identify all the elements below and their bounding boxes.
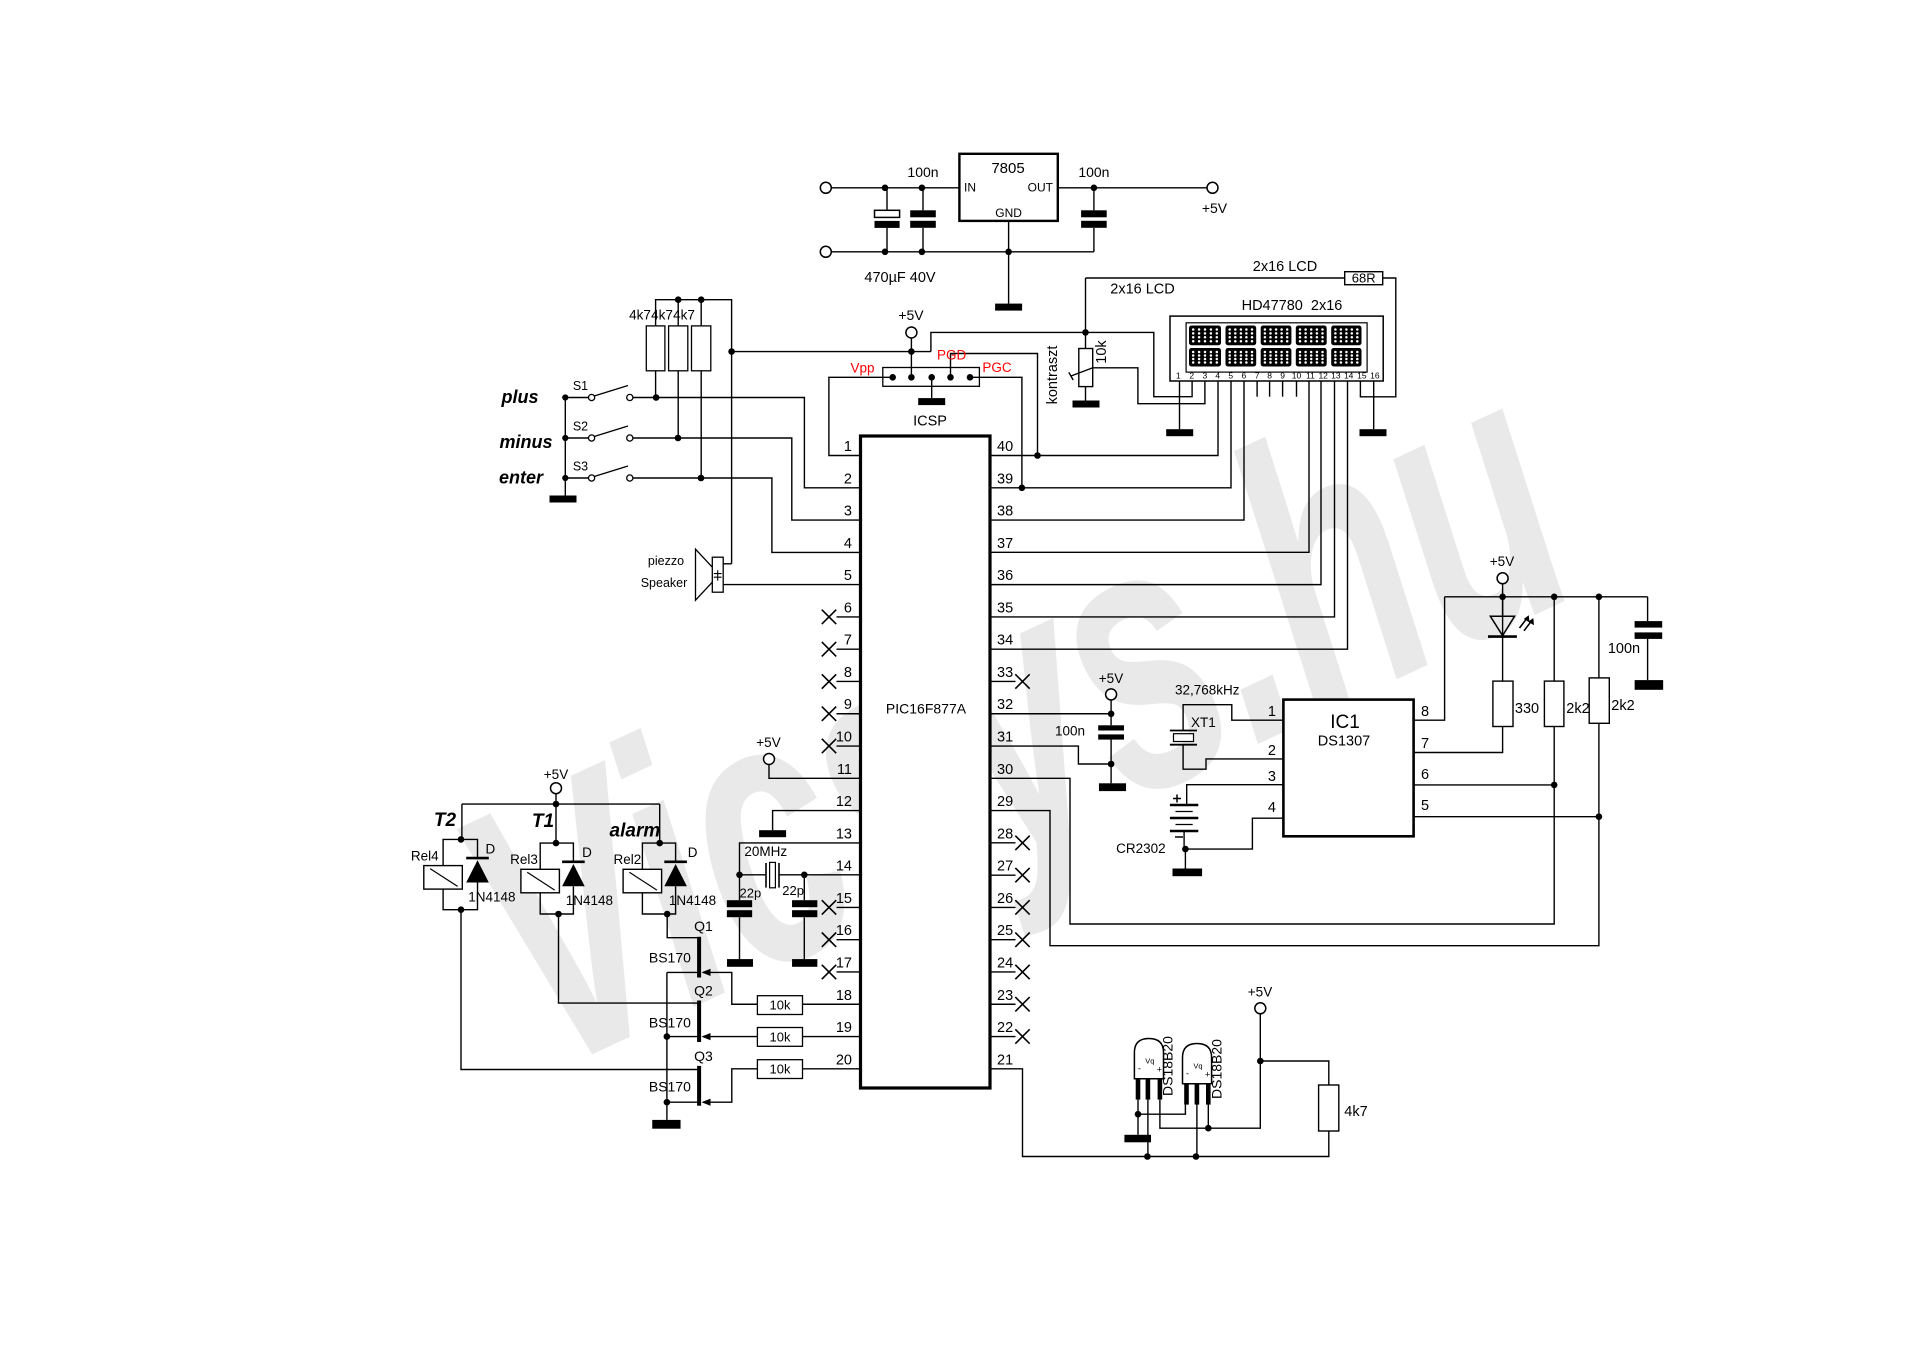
wire +5V rail mid xyxy=(732,351,931,353)
wire 100n rtc bottom lead xyxy=(1110,740,1112,784)
node switch S2 left contact xyxy=(562,435,568,441)
LCD character block r1c1 xyxy=(1189,326,1221,346)
node junction 2k2a rail xyxy=(1551,594,1558,601)
wire Rel2 top right xyxy=(660,843,676,862)
ground sensor ground xyxy=(1124,1135,1151,1143)
svg-text:3: 3 xyxy=(1203,371,1208,381)
wire 100n-out lead1 xyxy=(1093,188,1095,211)
node Rel3 top node xyxy=(553,840,560,847)
wire S1 to PIC xyxy=(633,398,861,488)
svg-text:Speaker: Speaker xyxy=(641,576,688,590)
wire 100n-in leads xyxy=(922,188,924,211)
svg-text:5: 5 xyxy=(844,568,852,584)
svg-text:2: 2 xyxy=(1189,371,1194,381)
node junction DQ2 xyxy=(1193,1153,1200,1160)
ground battery ground xyxy=(1173,869,1203,877)
svg-text:36: 36 xyxy=(997,568,1013,584)
svg-text:9: 9 xyxy=(1280,371,1285,381)
crystal Q-20MHz xyxy=(765,863,767,888)
resistor 330 xyxy=(1493,681,1513,726)
wire Rel3 diode bottom xyxy=(559,886,574,914)
svg-text:10k: 10k xyxy=(770,998,791,1013)
svg-text:1N4148: 1N4148 xyxy=(468,889,515,904)
node junction XTAL left xyxy=(736,872,743,879)
resistor 10k pin19 xyxy=(757,1028,802,1047)
svg-text:DS18B20: DS18B20 xyxy=(1209,1039,1225,1099)
node junction XTAL right xyxy=(801,872,808,879)
wire sensor gnd link xyxy=(1138,1104,1185,1114)
svg-text:10k: 10k xyxy=(770,1062,791,1077)
svg-text:+5V: +5V xyxy=(544,767,568,782)
IC1 DS1307 xyxy=(1283,700,1413,837)
U2 leg xyxy=(1146,1079,1151,1100)
no-connect X pin10 xyxy=(822,739,836,753)
svg-text:Rel3: Rel3 xyxy=(510,852,538,867)
transistor Q2 gate arrow xyxy=(702,1033,711,1040)
wire pin19 to 10k xyxy=(803,1036,861,1038)
transistor Q1 BS170 channel xyxy=(697,937,701,978)
node junction S3 pullup xyxy=(698,475,705,482)
wire R2 top stub xyxy=(677,300,679,326)
ground LCD pin1 ground xyxy=(1166,429,1193,436)
svg-text:7805: 7805 xyxy=(991,160,1024,177)
wire U3 DQ leg xyxy=(1196,1104,1198,1156)
node junction battery gnd xyxy=(1182,846,1189,853)
svg-text:26: 26 xyxy=(997,891,1013,907)
svg-text:3: 3 xyxy=(844,504,852,520)
svg-text:OUT: OUT xyxy=(1028,181,1054,195)
wire 100n-in lead2 xyxy=(922,228,924,252)
svg-text:piezzo: piezzo xyxy=(648,554,684,568)
wire ICSP gnd lead xyxy=(931,377,933,398)
svg-text:+5V: +5V xyxy=(898,307,924,323)
wire pin24 stub xyxy=(990,971,1016,973)
node junction S1 pullup xyxy=(653,394,660,401)
resistor R-S1 4k7 xyxy=(646,326,665,371)
node ICSP pin 2 +5V xyxy=(908,374,915,381)
LCD character block r2c5 xyxy=(1331,348,1361,367)
svg-text:IN: IN xyxy=(964,181,976,195)
wire Rel3 coil bottom xyxy=(540,893,558,914)
svg-text:15: 15 xyxy=(836,891,852,907)
wire relay rail left drop xyxy=(461,804,463,839)
wire 7805 out rail xyxy=(1058,187,1207,189)
wire pin21 data xyxy=(990,1069,1329,1157)
svg-text:330: 330 xyxy=(1515,701,1539,717)
wire pot wiper to LCD pin3 xyxy=(1094,368,1205,404)
ground 22p-1 ground xyxy=(727,959,753,967)
node junction pin32 +5V xyxy=(1108,711,1115,718)
wire Rel4 to Q3 drain xyxy=(461,910,697,1070)
svg-text:T1: T1 xyxy=(532,811,554,832)
no-connect X pin8 xyxy=(822,674,836,688)
wire 22p-1 bottom lead xyxy=(739,917,741,959)
transistor Q3 gate arrow xyxy=(702,1099,711,1106)
node junction elec-cap bottom xyxy=(882,249,889,256)
node Rel3 bottom node xyxy=(555,911,562,918)
capacitor C-elec 470uF top plate xyxy=(875,210,900,217)
svg-text:DS18B20: DS18B20 xyxy=(1160,1036,1176,1096)
wire 100n right top xyxy=(1647,597,1649,621)
wire IC1 pin6 SCL xyxy=(1414,784,1555,786)
node junction SCL xyxy=(1551,782,1558,789)
LCD character block r2c3 xyxy=(1261,348,1292,367)
terminal sensor +5V terminal xyxy=(1255,1003,1266,1014)
LCD character block r1c2 xyxy=(1226,326,1257,346)
svg-text:16: 16 xyxy=(1370,371,1380,381)
wire pin11 +5V xyxy=(769,764,861,778)
node junction SDA xyxy=(1596,813,1603,820)
piezzo speaker xyxy=(712,557,723,592)
svg-text:6: 6 xyxy=(1421,767,1429,783)
wire +5V to 4k7 xyxy=(1260,1061,1329,1085)
svg-text:13: 13 xyxy=(1331,371,1341,381)
svg-text:Vq: Vq xyxy=(1193,1062,1202,1071)
wire relay +5V rail xyxy=(462,803,660,805)
svg-text:19: 19 xyxy=(836,1020,852,1036)
svg-text:32: 32 xyxy=(997,697,1013,713)
wire crystal left link xyxy=(740,874,767,876)
svg-text:2k2: 2k2 xyxy=(1566,701,1589,717)
resistor R-S2 4k7 xyxy=(669,326,688,371)
svg-text:D: D xyxy=(688,845,698,860)
switch S1 contacts xyxy=(589,394,595,400)
node junction PGC pin39 xyxy=(1019,485,1026,492)
wire U2 VDD leg xyxy=(1160,1100,1208,1129)
wire PGC net xyxy=(970,377,1022,488)
wire pin13 to crystal xyxy=(740,843,861,875)
no-connect X pin17 xyxy=(822,965,836,979)
wire pin37 to LCD xyxy=(990,381,1309,552)
LCD character block r2c2 xyxy=(1226,348,1257,367)
wire Rel3 to Q2 drain xyxy=(559,914,698,1003)
svg-text:D: D xyxy=(582,845,592,860)
wire 100n right bottom xyxy=(1647,639,1649,680)
U2 leg xyxy=(1136,1079,1141,1100)
resistor 10k pin18 xyxy=(757,996,802,1015)
wire IC1 pin8 +5V xyxy=(1414,597,1445,720)
node Rel4 top node xyxy=(458,836,465,843)
svg-text:Q2: Q2 xyxy=(694,983,713,999)
svg-text:+5V: +5V xyxy=(1202,200,1228,216)
node switch S3 left contact xyxy=(562,475,568,481)
wire 10k-19 to Q2 gate xyxy=(703,1036,757,1038)
svg-text:Vq: Vq xyxy=(1145,1057,1154,1066)
node junction sensor gnd xyxy=(1135,1111,1142,1118)
no-connect X pin24 xyxy=(1015,965,1029,979)
svg-text:-: - xyxy=(1186,1069,1189,1079)
svg-text:7: 7 xyxy=(1255,371,1260,381)
no-connect X pin25 xyxy=(1015,933,1029,947)
svg-text:HD47780 2x16: HD47780 2x16 xyxy=(1242,298,1343,314)
capacitor C 100n rtc xyxy=(1098,725,1124,730)
svg-text:2: 2 xyxy=(844,471,852,487)
U3 leg xyxy=(1184,1084,1189,1105)
node junction VDD sensors xyxy=(1205,1125,1212,1132)
svg-text:20MHz: 20MHz xyxy=(744,844,787,859)
svg-text:22p: 22p xyxy=(740,886,762,901)
node junction 7805 gnd xyxy=(1005,249,1012,256)
node junction Q3 source xyxy=(664,1099,671,1106)
wire Q2 source xyxy=(667,1036,697,1038)
svg-text:28: 28 xyxy=(997,826,1013,842)
wire IC1 pin3 to battery xyxy=(1187,785,1284,805)
wire pullup top rail xyxy=(656,300,732,564)
ground 7805 ground xyxy=(995,304,1022,311)
wire R3 top stub xyxy=(700,300,702,326)
wire 10k-20 to Q3 gate xyxy=(703,1069,757,1102)
svg-text:5: 5 xyxy=(1228,371,1233,381)
svg-text:37: 37 xyxy=(997,536,1013,552)
svg-text:IC1: IC1 xyxy=(1330,712,1360,733)
node junction 2k2b rail xyxy=(1596,594,1603,601)
terminal ICSP +5V xyxy=(906,327,917,338)
wire battery minus lead xyxy=(1183,831,1185,849)
relay coil Rel4 xyxy=(424,866,463,890)
svg-text:16: 16 xyxy=(836,923,852,939)
terminal pin11 +5V terminal xyxy=(764,754,775,765)
wire 2k2a top xyxy=(1553,597,1555,681)
wire sensor gnd drop xyxy=(1137,1114,1139,1135)
wire 22p-2 bottom lead xyxy=(803,917,805,959)
wire pin28 stub xyxy=(990,842,1016,844)
svg-text:-: - xyxy=(1138,1064,1141,1074)
svg-text:3: 3 xyxy=(1268,769,1276,785)
svg-text:7: 7 xyxy=(844,633,852,649)
wire 2k2b top xyxy=(1598,597,1600,678)
svg-text:5: 5 xyxy=(1421,798,1429,814)
wire pin22 stub xyxy=(990,1036,1016,1038)
svg-text:100n: 100n xyxy=(1055,724,1085,739)
ground pot ground xyxy=(1073,401,1100,408)
svg-text:11: 11 xyxy=(837,762,852,778)
wire LCD pin7 stub xyxy=(1256,381,1258,397)
node Rel2 top node xyxy=(656,840,663,847)
svg-text:100n: 100n xyxy=(907,164,938,180)
wire LED anode through xyxy=(1502,597,1504,637)
ICSP header xyxy=(883,368,980,387)
wire LCD pin2 +5V path xyxy=(1086,332,1193,396)
svg-text:S1: S1 xyxy=(573,379,588,393)
svg-text:8: 8 xyxy=(844,665,852,681)
node junction R3 top xyxy=(698,296,705,303)
svg-text:4k7: 4k7 xyxy=(651,308,673,323)
svg-text:1: 1 xyxy=(1176,371,1181,381)
svg-text:13: 13 xyxy=(836,826,852,842)
node junction DQ1 xyxy=(1144,1153,1151,1160)
wire 100n-out lead2 xyxy=(1093,228,1095,252)
temperature sensor U2 DS18B20 xyxy=(1134,1039,1163,1079)
wire pin6 stub xyxy=(837,616,861,618)
svg-text:6: 6 xyxy=(1242,371,1247,381)
wire +5V to LCD top rail xyxy=(1086,277,1345,279)
transistor Q1 gate arrow xyxy=(702,969,711,976)
ground transistor ground xyxy=(652,1120,680,1129)
ground 22p-2 ground xyxy=(792,959,817,967)
svg-text:GND: GND xyxy=(995,206,1022,220)
wire pin34 to LCD xyxy=(990,381,1348,649)
node junction S2 pullup xyxy=(675,435,682,442)
wire input bottom rail xyxy=(831,251,1094,253)
no-connect X pin9 xyxy=(822,707,836,721)
wire Rel4 top right xyxy=(461,839,478,858)
wire IC1 pin2 to XT1 xyxy=(1183,745,1283,770)
svg-text:24: 24 xyxy=(997,956,1013,972)
wire U2 gnd leg xyxy=(1137,1100,1139,1115)
ground LCD pin16 ground xyxy=(1360,429,1387,436)
svg-text:+5V: +5V xyxy=(1248,985,1272,1000)
no-connect X pin15 xyxy=(822,900,836,914)
svg-text:1: 1 xyxy=(844,439,852,455)
no-connect X pin7 xyxy=(822,642,836,656)
wire Rel2 diode bottom xyxy=(667,886,675,914)
wire IC1 pin1 to XT1 xyxy=(1183,705,1283,731)
diode D Rel4 1N4148 xyxy=(466,857,489,860)
node ICSP pin 3 GND xyxy=(928,374,935,381)
diode D Rel3 1N4148 xyxy=(562,860,585,863)
terminal LED +5V terminal xyxy=(1497,573,1508,584)
svg-text:9: 9 xyxy=(844,697,852,713)
wire Rel4 diode bottom xyxy=(461,883,478,910)
svg-text:+5V: +5V xyxy=(756,735,780,750)
svg-text:18: 18 xyxy=(836,988,852,1004)
node switch S1 left contact xyxy=(562,394,568,400)
wire pin33 stub xyxy=(990,680,1016,682)
LCD character block r1c3 xyxy=(1261,326,1292,346)
svg-text:10k: 10k xyxy=(1094,340,1110,364)
wire pin36 to LCD xyxy=(990,381,1321,585)
relay coil Rel3 xyxy=(521,869,560,893)
wire LCD pin8 stub xyxy=(1269,381,1271,397)
node junction pin31 gnd xyxy=(1108,761,1115,768)
svg-text:20: 20 xyxy=(836,1052,852,1068)
wire battery gnd lead xyxy=(1184,849,1186,868)
wire Rel3 top left xyxy=(540,843,556,869)
wire Q1 source xyxy=(667,971,697,973)
node junction ICSP +5V rail xyxy=(908,348,915,355)
svg-text:S3: S3 xyxy=(573,460,588,474)
relay coil Rel2 xyxy=(623,869,662,893)
resistor R-S3 4k7 xyxy=(692,326,711,371)
wire 22p-1 top lead xyxy=(739,875,741,900)
svg-text:4: 4 xyxy=(844,536,852,552)
regulator 7805 xyxy=(959,154,1057,221)
svg-text:Q3: Q3 xyxy=(694,1048,713,1064)
crystal XT1 32.768kHz xyxy=(1170,730,1197,732)
wire IC1 pin5 SDA xyxy=(1414,816,1599,818)
wire pin17 stub xyxy=(837,971,861,973)
node junction PGD pin40 xyxy=(1034,452,1041,459)
LCD character block r1c4 xyxy=(1296,326,1327,346)
node junction 100n-in top xyxy=(919,185,926,192)
wire elec cap leads xyxy=(886,188,888,211)
node junction +5V speaker xyxy=(728,348,735,355)
svg-text:12: 12 xyxy=(1318,371,1328,381)
svg-text:27: 27 xyxy=(997,859,1013,875)
wire LED +5V stub xyxy=(1502,584,1504,616)
switch S3 contacts xyxy=(589,475,595,481)
svg-text:4: 4 xyxy=(1215,371,1220,381)
svg-text:10k: 10k xyxy=(770,1030,791,1045)
wire pin29 SDA xyxy=(990,811,1599,946)
switch S3 lever xyxy=(594,466,628,477)
svg-text:XT1: XT1 xyxy=(1191,715,1216,730)
wire ICSP Vpp to pin1 xyxy=(829,377,893,455)
wire pin20 to 10k xyxy=(803,1068,861,1070)
wire elec cap lead2 xyxy=(886,228,888,252)
battery CR2302 xyxy=(1170,805,1198,831)
wire U3 VDD leg xyxy=(1207,1104,1209,1128)
wire S3 to PIC xyxy=(633,478,861,552)
svg-text:7: 7 xyxy=(1421,736,1429,752)
wire Rel2 to Q1 drain xyxy=(667,914,697,938)
potentiometer 10k kontraszt xyxy=(1079,349,1093,387)
no-connect X pin27 xyxy=(1015,868,1029,882)
wire crystal right to pin14 xyxy=(779,874,861,876)
wire pin18 to 10k xyxy=(803,1003,861,1005)
node junction 4k7 +5V xyxy=(1257,1058,1264,1065)
wire pin40 to LCD xyxy=(990,381,1218,456)
node Rel4 bottom node xyxy=(458,906,465,913)
svg-text:2x16 LCD: 2x16 LCD xyxy=(1253,259,1317,275)
wire speaker to pin5 xyxy=(723,584,860,586)
capacitor 100n input xyxy=(910,210,936,217)
wire LED to 330 xyxy=(1502,637,1504,682)
svg-text:10: 10 xyxy=(836,730,852,746)
no-connect X pin22 xyxy=(1015,1029,1029,1043)
wire +5V feed to LCD xyxy=(931,332,1086,351)
no-connect X pin23 xyxy=(1015,997,1029,1011)
svg-text:14: 14 xyxy=(1344,371,1354,381)
svg-text:31: 31 xyxy=(997,730,1013,746)
svg-text:1: 1 xyxy=(1268,704,1276,720)
wire LCD pin10 stub xyxy=(1296,381,1298,397)
svg-text:17: 17 xyxy=(836,956,852,972)
wire S3 left stub xyxy=(565,477,588,479)
svg-text:12: 12 xyxy=(836,794,852,810)
wire input top rail xyxy=(831,187,959,189)
terminal power input + xyxy=(820,182,831,193)
wire U2 DQ leg xyxy=(1147,1100,1149,1157)
LCD character block r2c4 xyxy=(1296,348,1327,367)
no-connect X pin6 xyxy=(822,610,836,624)
svg-text:38: 38 xyxy=(997,504,1013,520)
node junction LED rail xyxy=(1499,594,1506,601)
svg-text:8: 8 xyxy=(1421,704,1429,720)
node ICSP pin 5 PGC xyxy=(967,374,974,381)
microcontroller U1 PIC16F877A xyxy=(861,436,991,1088)
svg-text:T2: T2 xyxy=(434,810,457,831)
LCD module box xyxy=(1170,316,1383,381)
no-connect X pin28 xyxy=(1015,836,1029,850)
wire switch common xyxy=(564,398,566,496)
svg-text:40: 40 xyxy=(997,439,1013,455)
wire PGD net xyxy=(951,354,1038,456)
svg-text:100n: 100n xyxy=(1608,641,1640,657)
svg-text:alarm: alarm xyxy=(610,821,661,842)
svg-text:1N4148: 1N4148 xyxy=(669,893,716,908)
svg-text:D: D xyxy=(486,841,496,856)
resistor 2k2 a xyxy=(1544,681,1564,726)
svg-text:Vpp: Vpp xyxy=(850,361,874,376)
wire pin16 stub xyxy=(837,939,861,941)
switch S2 contacts xyxy=(589,435,595,441)
node junction R2 top xyxy=(675,296,682,303)
wire 100n rtc top lead xyxy=(1110,714,1112,726)
svg-text:BS170: BS170 xyxy=(649,950,691,966)
node junction 100n-in bottom xyxy=(919,249,926,256)
wire pin25 stub xyxy=(990,939,1016,941)
